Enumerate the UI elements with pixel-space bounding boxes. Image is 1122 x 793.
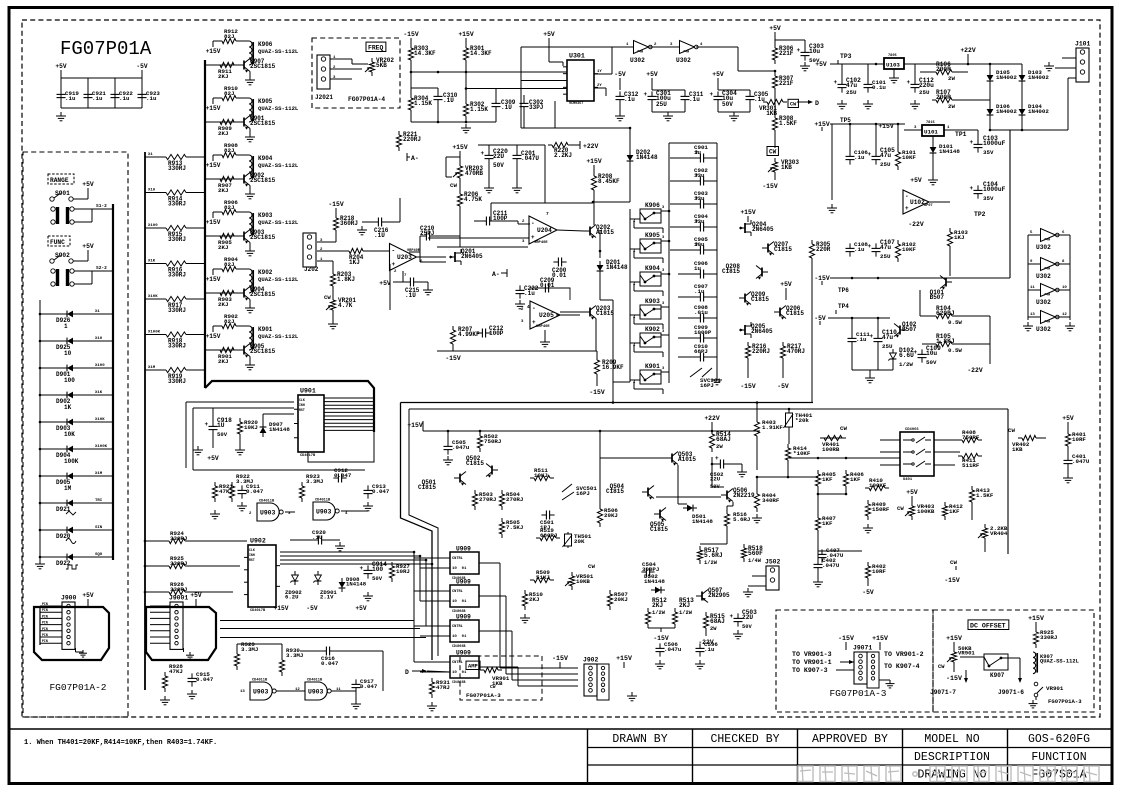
svg-text:C1815: C1815: [596, 310, 614, 317]
resistor R510: [524, 590, 526, 594]
resistor R207: [452, 326, 454, 330]
wires U901 outputs: [324, 397, 374, 399]
svg-text:+: +: [392, 261, 396, 268]
svg-text:150RF: 150RF: [872, 506, 890, 513]
svg-text:0.047: 0.047: [334, 472, 352, 479]
svg-text:1N4148: 1N4148: [606, 264, 628, 271]
svg-text:10u: 10u: [926, 350, 937, 357]
svg-text:10KJ: 10KJ: [244, 424, 258, 431]
label FUNC: [48, 236, 70, 246]
svg-text:U102: U102: [910, 199, 925, 206]
svg-text:360RJ: 360RJ: [340, 220, 358, 227]
resistor R516: [726, 510, 728, 514]
svg-text:TP2: TP2: [974, 211, 986, 218]
svg-text:+15V: +15V: [206, 276, 221, 283]
svg-text:A-: A-: [492, 271, 500, 278]
svg-text:X100K: X100K: [148, 331, 161, 335]
relay K905: [640, 239, 661, 253]
svg-text:+: +: [360, 565, 364, 572]
svg-text:U401: U401: [903, 478, 913, 482]
svg-text:220RJ: 220RJ: [403, 136, 421, 143]
transistor Q202: [589, 227, 591, 236]
capacitor C919: [60, 89, 62, 94]
svg-text:PIN: PIN: [42, 621, 48, 625]
svg-text:X10: X10: [148, 189, 156, 193]
potentiometer VR303: [774, 158, 776, 162]
svg-text:+15V: +15V: [206, 333, 221, 340]
svg-text:+5V: +5V: [1062, 415, 1074, 422]
svg-text:X1K: X1K: [95, 391, 103, 395]
node D out: [797, 101, 808, 103]
svg-text:+15V: +15V: [616, 655, 632, 662]
svg-text:A1015: A1015: [678, 456, 696, 463]
svg-text:U302: U302: [1036, 299, 1051, 306]
inverter U302 3: [1041, 229, 1056, 242]
svg-text:2N6405: 2N6405: [751, 328, 773, 335]
capacitor C911: [241, 485, 243, 490]
svg-text:K906: K906: [258, 41, 273, 48]
wire lower mid: [599, 431, 601, 505]
resistor R221: [398, 131, 400, 135]
svg-text:.1U: .1U: [312, 534, 323, 541]
svg-text:47KJ: 47KJ: [169, 668, 183, 675]
svg-text:-15V: -15V: [552, 655, 568, 662]
capacitor C209: [540, 287, 545, 289]
wire k bottom bus: [612, 300, 614, 402]
svg-text:0.5W: 0.5W: [948, 347, 962, 354]
resistor R102: [897, 240, 899, 244]
svg-text:16PJ: 16PJ: [700, 382, 714, 389]
resistor R307: [774, 72, 776, 76]
ground Q907: [249, 72, 251, 77]
capacitor C906: [678, 273, 697, 275]
svg-text:QUAZ-SS-112L: QUAZ-SS-112L: [258, 333, 299, 340]
potentiometer VR901b: [480, 669, 484, 671]
svg-text:+5V: +5V: [780, 281, 792, 288]
svg-text:0.047: 0.047: [360, 683, 378, 690]
relay coil K906: [240, 40, 249, 42]
note strip divider: [11, 728, 1112, 730]
svg-text:50V: 50V: [217, 431, 228, 438]
svg-text:4.7K: 4.7K: [338, 302, 353, 309]
potentiometer VR301: [774, 92, 776, 102]
relay coil K907dc: [1033, 652, 1036, 674]
svg-text:+22V: +22V: [583, 143, 599, 150]
svg-text:20KJ: 20KJ: [604, 512, 618, 519]
svg-text:1KF: 1KF: [850, 476, 861, 483]
svg-text:RANGE: RANGE: [50, 177, 69, 184]
svg-text:U103: U103: [886, 62, 900, 69]
svg-text:5KB: 5KB: [376, 62, 387, 69]
svg-text:X10: X10: [95, 337, 103, 341]
svg-text:10 01: 10 01: [452, 635, 467, 639]
capacitor C596: [699, 643, 701, 648]
svg-text:CHECKED BY: CHECKED BY: [710, 733, 779, 746]
svg-text:D922: D922: [56, 560, 71, 567]
relay coil K904: [240, 154, 249, 156]
capacitor C216: [373, 221, 378, 223]
diode D920: [40, 529, 64, 531]
transistor Q102: [899, 326, 901, 335]
svg-text:U903: U903: [308, 688, 324, 695]
capacitor C908: [678, 317, 697, 319]
transistor Q506: [726, 491, 728, 500]
resistor R906: [212, 212, 214, 216]
resistor R403: [756, 403, 758, 419]
svg-text:K901: K901: [645, 363, 660, 370]
capacitor C904: [670, 226, 697, 228]
transistor Q204: [744, 223, 746, 233]
svg-text:2N2219: 2N2219: [733, 492, 755, 499]
svg-text:X100K: X100K: [95, 445, 108, 449]
ground Q901: [249, 129, 251, 134]
svg-text:25U: 25U: [882, 343, 893, 350]
svg-text:1N4002: 1N4002: [1028, 108, 1049, 115]
capacitor C902: [670, 180, 697, 182]
wire lower section frame outer: [401, 402, 814, 404]
potentiometer VR501: [571, 572, 573, 576]
IC U909 1: [450, 552, 479, 574]
diode D904: [40, 448, 64, 450]
svg-text:CLK: CLK: [299, 398, 305, 402]
svg-text:+5V: +5V: [712, 71, 724, 78]
svg-text:1u: 1u: [694, 149, 701, 156]
resistor R907: [216, 178, 220, 180]
transistor Q501: [459, 474, 461, 483]
svg-text:1.5KF: 1.5KF: [976, 492, 994, 499]
transistor Q901: [205, 121, 238, 123]
resistor R408: [958, 439, 962, 441]
svg-text:25U: 25U: [880, 253, 891, 260]
transistor Q209: [744, 294, 746, 303]
capacitor C111: [851, 333, 853, 338]
svg-text:47u: 47u: [880, 244, 891, 251]
diode D501: [687, 505, 693, 512]
svg-text:1.15K: 1.15K: [470, 106, 488, 113]
svg-text:33u: 33u: [694, 218, 705, 225]
svg-text:100K: 100K: [64, 458, 79, 465]
svg-text:330RJ: 330RJ: [168, 271, 186, 278]
svg-text:2KJ: 2KJ: [218, 130, 228, 137]
svg-text:330RJ: 330RJ: [168, 165, 186, 172]
resistor R922: [231, 482, 233, 486]
svg-text:4.99KF: 4.99KF: [458, 331, 480, 338]
connector J502: [766, 566, 779, 590]
capacitor C907: [678, 296, 697, 298]
IC U909 3: [450, 620, 479, 642]
capacitor C916: [321, 650, 326, 652]
resistor R404: [756, 490, 758, 494]
resistor R916: [145, 263, 162, 265]
svg-text:CLK: CLK: [249, 548, 255, 552]
resistor R401: [1067, 430, 1069, 434]
svg-text:47u: 47u: [880, 152, 891, 159]
capacitor C917: [355, 679, 357, 684]
diode D201: [597, 265, 604, 271]
transistor Q902: [205, 178, 238, 180]
svg-text:10 01: 10 01: [452, 567, 467, 571]
svg-text:A-: A-: [411, 155, 419, 162]
svg-text:S2-2: S2-2: [96, 265, 107, 271]
resistor R216: [747, 342, 749, 346]
svg-text:+: +: [730, 613, 734, 620]
svg-text:1KF: 1KF: [949, 508, 960, 515]
svg-text:K907: K907: [990, 672, 1005, 679]
wire u204 in: [522, 223, 529, 225]
op-amp U204: [529, 216, 557, 244]
resistor R514: [711, 430, 713, 434]
node A-: [406, 153, 408, 161]
IC U909 2: [450, 585, 479, 607]
IC U401 switches: [900, 432, 934, 476]
capacitor C107: [875, 243, 877, 248]
capacitor C903: [670, 203, 697, 205]
svg-text:2W: 2W: [948, 103, 955, 110]
resistor R912: [212, 41, 214, 45]
svg-text:9CM0367: 9CM0367: [569, 102, 583, 106]
svg-text:1.8KJ: 1.8KJ: [337, 276, 355, 283]
thermistor TH401: [788, 409, 790, 411]
resistor R101: [897, 148, 899, 152]
svg-text:DC OFFSET: DC OFFSET: [970, 623, 1006, 630]
svg-text:1KB: 1KB: [1012, 446, 1023, 453]
svg-text:J101: J101: [1075, 41, 1091, 48]
svg-text:U903: U903: [253, 688, 269, 695]
capacitor C105: [875, 151, 877, 156]
dashed box FG07P01A-4: [312, 38, 400, 108]
svg-text:10u: 10u: [694, 241, 705, 248]
svg-text:22U: 22U: [493, 153, 504, 160]
resistor R914: [145, 192, 162, 194]
relay K902: [640, 333, 661, 347]
svg-text:82J: 82J: [224, 147, 234, 154]
svg-text:2KJ: 2KJ: [218, 73, 228, 80]
resistor R504: [501, 490, 503, 494]
svg-text:+: +: [914, 349, 918, 356]
svg-text:620BJ: 620BJ: [936, 310, 955, 317]
diode D901: [40, 367, 64, 369]
svg-text:33u: 33u: [694, 195, 705, 202]
svg-text:CD4066B: CD4066B: [452, 680, 465, 684]
svg-text:2SC1815: 2SC1815: [250, 348, 276, 355]
resistor R206: [459, 190, 461, 194]
svg-text:OP07: OP07: [924, 204, 933, 208]
svg-text:CD4011B: CD4011B: [307, 679, 323, 683]
connector J9071: [854, 652, 867, 684]
svg-text:K902: K902: [645, 326, 660, 333]
svg-text:200R: 200R: [936, 66, 951, 73]
resistor R927: [391, 562, 393, 566]
svg-text:VR901: VR901: [1046, 685, 1064, 692]
svg-text:1N4002: 1N4002: [1028, 74, 1049, 81]
capacitor C914: [367, 565, 369, 570]
capacitor C501: [541, 514, 546, 516]
svg-text:TP6: TP6: [838, 287, 849, 294]
svg-text:+15V: +15V: [740, 209, 756, 216]
svg-text:-22V: -22V: [908, 221, 924, 228]
ground U103: [893, 69, 895, 74]
op-amp U203: [390, 244, 417, 271]
capacitor C407: [821, 549, 823, 554]
svg-text:.1u: .1u: [856, 336, 867, 343]
connector J202: [303, 233, 316, 267]
svg-text:0.5W: 0.5W: [948, 319, 962, 326]
wire osc gnd: [410, 114, 412, 122]
svg-text:2KJ: 2KJ: [652, 602, 663, 609]
svg-text:1K: 1K: [64, 404, 72, 411]
resistor R414: [787, 444, 789, 448]
diode D202: [627, 155, 634, 161]
left bus wire: [39, 300, 41, 560]
resistor R905: [216, 235, 220, 237]
transistor Q101: [945, 278, 947, 287]
svg-text:-15V: -15V: [944, 577, 960, 584]
svg-text:+5V: +5V: [543, 31, 555, 38]
svg-text:VR901: VR901: [958, 650, 975, 657]
wire cap bus top: [61, 77, 142, 79]
svg-text:0.047: 0.047: [196, 676, 214, 683]
svg-text:+15V: +15V: [814, 121, 830, 128]
svg-text:1N4148: 1N4148: [692, 518, 713, 525]
svg-text:1N4148: 1N4148: [939, 148, 960, 155]
switch VR901dc: [1034, 682, 1038, 686]
resistor R923: [301, 482, 303, 486]
wires U903 lower: [236, 644, 238, 650]
relay K901: [640, 370, 661, 384]
capacitor C200: [553, 261, 558, 263]
svg-text:2W: 2W: [710, 626, 717, 632]
svg-text:330RJ: 330RJ: [168, 307, 186, 314]
wire j101: [1068, 77, 1076, 79]
wire U901 bottom: [308, 432, 374, 462]
svg-text:INH: INH: [299, 403, 305, 407]
svg-text:K903: K903: [258, 212, 273, 219]
svg-text:2KJ: 2KJ: [218, 187, 228, 194]
svg-text:12: 12: [1062, 313, 1067, 317]
svg-text:270RJ: 270RJ: [506, 496, 523, 503]
svg-text:FUNC: FUNC: [50, 239, 65, 246]
resistor R917: [145, 298, 162, 300]
connector J902: [584, 664, 597, 696]
svg-text:+15V: +15V: [274, 605, 289, 612]
svg-text:+: +: [205, 421, 209, 428]
svg-text:U302: U302: [630, 57, 645, 64]
resistor R915: [145, 227, 162, 229]
svg-text:CNTRL: CNTRL: [452, 661, 463, 665]
ground Q902: [249, 186, 251, 191]
capacitor C211: [481, 220, 486, 222]
svg-text:+15V: +15V: [206, 219, 221, 226]
ground C914: [367, 592, 369, 596]
transistor Q207: [767, 244, 769, 253]
capacitor C103: [977, 139, 979, 144]
svg-text:.1u: .1u: [146, 95, 157, 102]
svg-text:C1815: C1815: [751, 296, 769, 303]
resistor R519: [536, 537, 540, 539]
svg-text:221F: 221F: [779, 50, 794, 57]
resistor R515: [705, 612, 707, 616]
svg-text:4: 4: [527, 304, 530, 310]
label RANGE: [48, 174, 74, 184]
svg-text:+15V: +15V: [452, 144, 468, 151]
svg-text:-15V: -15V: [946, 675, 962, 682]
svg-text:C1815: C1815: [774, 246, 792, 253]
svg-text:CD4011B: CD4011B: [259, 500, 275, 504]
svg-text:CW: CW: [790, 102, 797, 108]
wires U902 to U909: [280, 551, 414, 553]
potentiometer VR401: [820, 437, 846, 439]
svg-text:0.1u: 0.1u: [872, 84, 886, 91]
svg-text:-15V: -15V: [814, 275, 830, 282]
svg-text:1/2W: 1/2W: [679, 610, 693, 616]
svg-text:U204: U204: [537, 227, 552, 234]
svg-text:8.45KF: 8.45KF: [598, 178, 620, 185]
resistor R203: [317, 260, 333, 262]
svg-text:.01u: .01u: [694, 309, 708, 316]
svg-text:9RP40E: 9RP40E: [536, 325, 550, 329]
resistor R901: [216, 349, 220, 351]
svg-text:K903: K903: [645, 298, 660, 305]
svg-text:TO VR901-1: TO VR901-1: [792, 659, 832, 666]
svg-text:330RJ: 330RJ: [170, 560, 187, 567]
resistor R925: [165, 565, 169, 567]
resistor R910: [212, 98, 214, 102]
potentiometer VR402: [1018, 437, 1022, 439]
svg-text:CW: CW: [769, 149, 777, 156]
wire inv chain: [521, 46, 623, 48]
bus wire right column: [204, 60, 206, 388]
svg-text:-5V: -5V: [777, 383, 789, 390]
svg-text:4.75K: 4.75K: [464, 196, 482, 203]
svg-text:330RJ: 330RJ: [1040, 634, 1057, 641]
svg-text:+5V: +5V: [910, 177, 922, 184]
svg-text:*10KF: *10KF: [793, 450, 811, 457]
svg-text:-5V: -5V: [862, 589, 874, 596]
svg-text:J9001: J9001: [169, 595, 188, 602]
svg-text:-5V: -5V: [814, 315, 826, 322]
transistor Q507: [701, 592, 703, 601]
transistor Q205: [744, 325, 746, 335]
svg-text:330RJ: 330RJ: [170, 586, 187, 593]
svg-text:CD4066B: CD4066B: [452, 644, 465, 648]
svg-text:AMP: AMP: [468, 664, 478, 670]
svg-text:68AJ: 68AJ: [710, 618, 725, 625]
ground J9001: [183, 648, 185, 652]
svg-text:1000uF: 1000uF: [983, 186, 1006, 193]
svg-text:D: D: [405, 669, 409, 676]
svg-text:K904: K904: [258, 155, 273, 162]
svg-text:74H: 74H: [683, 51, 689, 55]
svg-text:74H: 74H: [1044, 294, 1050, 298]
svg-text:+: +: [905, 205, 909, 212]
svg-text:J900: J900: [61, 595, 77, 602]
svg-text:.047u: .047u: [452, 444, 470, 451]
capacitor C401: [1067, 455, 1069, 460]
svg-text:2SC1815: 2SC1815: [250, 63, 276, 70]
svg-text:68PJ: 68PJ: [694, 348, 708, 355]
svg-text:47u: 47u: [882, 334, 893, 341]
svg-text:100: 100: [372, 566, 383, 573]
resistor R103: [949, 228, 951, 232]
resistor R919: [145, 369, 162, 371]
svg-text:+: +: [644, 91, 648, 98]
svg-text:GOS-620FG: GOS-620FG: [1028, 733, 1090, 746]
ground J902: [609, 689, 632, 691]
wire inv stack rails: [1027, 235, 1029, 320]
relay K907: [984, 654, 1008, 670]
wire bias bus: [410, 64, 412, 94]
svg-text:1.91KF: 1.91KF: [762, 424, 783, 431]
